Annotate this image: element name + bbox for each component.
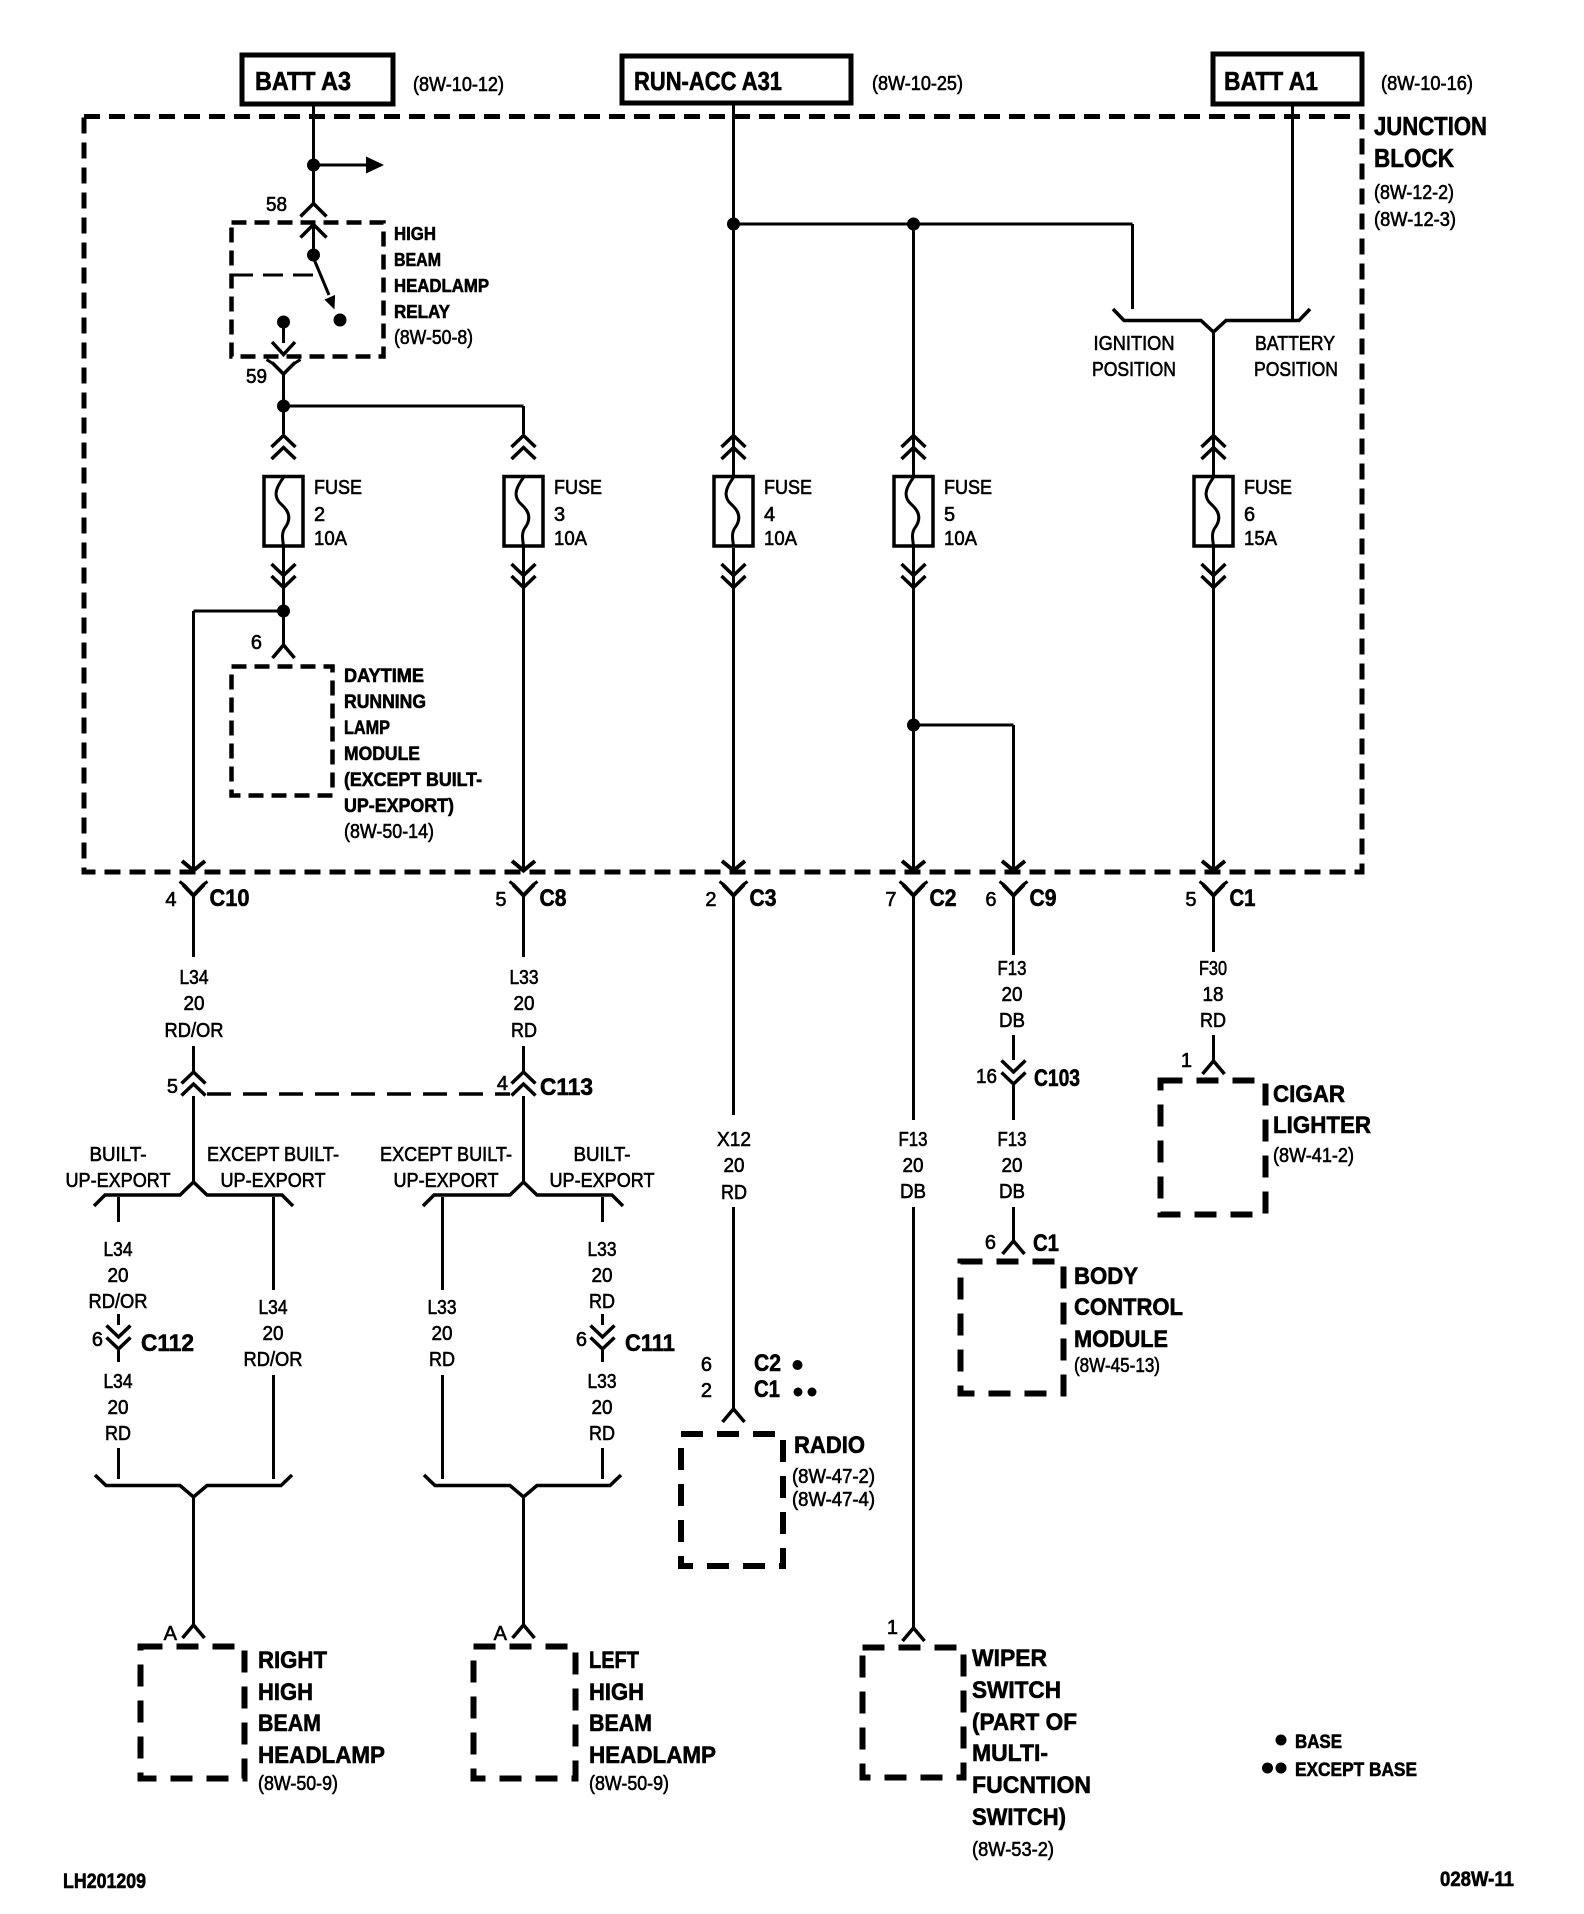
- wire fuse 3 to connector C8: [522, 546, 525, 868]
- svg-text:(8W-45-13): (8W-45-13): [1074, 1355, 1160, 1377]
- body control module label: [1074, 1263, 1183, 1377]
- svg-text:F30: F30: [1199, 958, 1227, 980]
- daytime running lamp module box: [232, 667, 333, 796]
- reference (8W-10-12): [413, 74, 504, 96]
- merge brace group 2: [424, 1475, 621, 1497]
- relay output contact dot: [277, 316, 290, 329]
- connector C1 pin 5: [1185, 861, 1255, 912]
- svg-text:L34: L34: [104, 1371, 133, 1393]
- svg-text:(PART OF: (PART OF: [972, 1709, 1077, 1736]
- wire label L33 20 RD lower: [588, 1371, 617, 1445]
- svg-text:BATT A1: BATT A1: [1224, 66, 1318, 96]
- svg-text:20: 20: [263, 1323, 284, 1345]
- wire brace to fuse 6: [1212, 332, 1215, 477]
- connector C8 pin 5: [495, 861, 566, 912]
- footer drawing number 028W-11: [1440, 1868, 1514, 1891]
- relay switch arm: [314, 258, 336, 310]
- svg-text:(8W-53-2): (8W-53-2): [972, 1839, 1054, 1861]
- wiper pin 1 label: [887, 1617, 898, 1639]
- junction dot branch to fuse 5: [907, 218, 920, 231]
- wire RUN-ACC A31 down to fuse 4: [732, 105, 735, 477]
- BCM pin 6: [1003, 1241, 1025, 1254]
- svg-text:WIPER: WIPER: [972, 1645, 1047, 1672]
- connector C113 pin 4 label: [497, 1073, 508, 1095]
- svg-text:(8W-50-14): (8W-50-14): [344, 821, 434, 843]
- legend base label: [1295, 1732, 1342, 1753]
- power feed RUN-ACC A31: [622, 56, 851, 103]
- wire except built stub: [272, 1197, 275, 1290]
- wire L34 lower: [192, 1046, 195, 1071]
- svg-text:16: 16: [976, 1066, 997, 1088]
- cigar lighter box: [1161, 1081, 1266, 1215]
- label built-up-export left: [66, 1144, 171, 1192]
- svg-text:L33: L33: [428, 1297, 457, 1319]
- svg-text:RD/OR: RD/OR: [244, 1349, 303, 1371]
- svg-text:RD: RD: [105, 1423, 131, 1445]
- svg-text:2: 2: [705, 889, 716, 911]
- connector C103 pin 16 label: [976, 1066, 997, 1088]
- wire into C103: [1012, 1035, 1015, 1060]
- connector C2 pin 7: [885, 861, 956, 912]
- svg-text:6: 6: [985, 1232, 996, 1254]
- svg-text:20: 20: [108, 1397, 129, 1419]
- svg-text:RD: RD: [429, 1349, 455, 1371]
- svg-text:C103: C103: [1034, 1065, 1080, 1092]
- fuse 4 output connector: [722, 564, 746, 588]
- junction dot node 59: [277, 400, 290, 413]
- relay label: [394, 224, 489, 349]
- split brace group 1: [94, 1182, 293, 1206]
- svg-text:HIGH: HIGH: [258, 1679, 313, 1706]
- svg-text:RIGHT: RIGHT: [258, 1647, 327, 1674]
- relay pin 58: [301, 204, 327, 217]
- wire X12 upper: [732, 906, 735, 1115]
- pin 59 label: [246, 366, 267, 388]
- svg-text:BODY: BODY: [1074, 1263, 1138, 1290]
- relay stationary contact dot: [334, 314, 347, 327]
- svg-text:RELAY: RELAY: [394, 302, 450, 322]
- cigar lighter pin 1: [1203, 1061, 1225, 1074]
- svg-text:L33: L33: [510, 967, 539, 989]
- svg-text:BASE: BASE: [1295, 1732, 1342, 1753]
- svg-text:C112: C112: [141, 1330, 194, 1357]
- power feed BATT A1: [1213, 54, 1362, 104]
- wire except built lower: [272, 1375, 275, 1479]
- connector C113 left half: [182, 1072, 206, 1096]
- wire pin 59 down: [282, 384, 285, 434]
- junction block label: [1374, 111, 1487, 231]
- wire except built lower 2: [441, 1375, 444, 1479]
- fuse 4 input connector: [722, 436, 746, 460]
- svg-text:SWITCH): SWITCH): [972, 1804, 1066, 1831]
- svg-text:LAMP: LAMP: [344, 718, 390, 739]
- wire to export split: [192, 1096, 195, 1182]
- DRL module pin 6: [273, 645, 295, 658]
- wire into BCM: [1012, 1207, 1015, 1241]
- svg-text:BEAM: BEAM: [258, 1710, 321, 1737]
- fuse 3 output connector: [512, 564, 536, 588]
- svg-text:BEAM: BEAM: [589, 1710, 652, 1737]
- svg-text:DB: DB: [900, 1181, 926, 1203]
- radio connector C2 label: [701, 1350, 781, 1377]
- wire RUN-ACC branch right: [734, 223, 1133, 226]
- wire L33 upper: [522, 907, 525, 957]
- svg-text:(8W-47-2): (8W-47-2): [792, 1466, 875, 1488]
- svg-text:(8W-12-3): (8W-12-3): [1374, 209, 1456, 231]
- reference (8W-10-16): [1381, 73, 1473, 95]
- wire below C111: [601, 1349, 604, 1362]
- svg-text:L34: L34: [259, 1297, 288, 1319]
- svg-text:EXCEPT BUILT-: EXCEPT BUILT-: [207, 1144, 339, 1166]
- svg-text:UP-EXPORT: UP-EXPORT: [394, 1170, 499, 1192]
- relay pin 59 connector: [267, 360, 301, 385]
- svg-text:20: 20: [592, 1265, 613, 1287]
- wire label F13 20 DB wiper: [899, 1129, 928, 1203]
- svg-text:20: 20: [1002, 984, 1023, 1006]
- svg-text:C111: C111: [625, 1330, 675, 1357]
- connector C112: [107, 1326, 195, 1358]
- base variant dot: [793, 1360, 803, 1370]
- svg-text:(8W-47-4): (8W-47-4): [792, 1489, 875, 1511]
- wire L34 upper: [192, 907, 195, 957]
- svg-text:HEADLAMP: HEADLAMP: [258, 1742, 385, 1769]
- svg-text:(EXCEPT BUILT-: (EXCEPT BUILT-: [344, 770, 482, 791]
- wire branch to fuse 3: [284, 406, 524, 434]
- fuse 2 input connector: [272, 436, 296, 460]
- svg-text:C1: C1: [1033, 1230, 1059, 1257]
- svg-text:C2: C2: [754, 1350, 781, 1377]
- BCM pin 6 label: [985, 1232, 996, 1254]
- body control module box: [961, 1262, 1064, 1394]
- svg-text:RD: RD: [721, 1182, 747, 1204]
- svg-text:F13: F13: [899, 1129, 928, 1151]
- svg-text:C8: C8: [540, 885, 567, 912]
- wire BATT A1 down: [1291, 106, 1294, 321]
- connector C10 pin 4: [165, 861, 249, 912]
- wire C9 upper: [1012, 906, 1015, 955]
- svg-text:RD/OR: RD/OR: [89, 1291, 148, 1313]
- svg-text:3: 3: [554, 504, 565, 526]
- right high beam headlamp box: [141, 1647, 245, 1779]
- left high beam headlamp box: [474, 1647, 576, 1779]
- svg-text:6: 6: [1244, 504, 1255, 526]
- svg-text:F13: F13: [998, 1129, 1027, 1151]
- wire fuse 6 to connector C1: [1212, 547, 1215, 868]
- reference (8W-10-25): [872, 73, 963, 95]
- radio label: [792, 1432, 875, 1511]
- connector C112 pin 6 label: [92, 1329, 103, 1351]
- svg-text:EXCEPT BASE: EXCEPT BASE: [1295, 1760, 1417, 1781]
- svg-text:20: 20: [592, 1397, 613, 1419]
- radio pin: [723, 1409, 745, 1422]
- svg-text:5: 5: [944, 504, 955, 526]
- svg-text:RD/OR: RD/OR: [165, 1020, 224, 1042]
- wire label L33 20 RD except: [428, 1297, 457, 1371]
- svg-text:FUSE: FUSE: [314, 477, 362, 499]
- wire F13 lower: [912, 1207, 915, 1628]
- svg-text:F13: F13: [998, 958, 1027, 980]
- svg-text:SWITCH: SWITCH: [972, 1677, 1061, 1704]
- merge brace group 1: [95, 1475, 292, 1497]
- svg-text:2: 2: [314, 504, 325, 526]
- svg-text:FUSE: FUSE: [764, 477, 812, 499]
- svg-text:20: 20: [108, 1265, 129, 1287]
- cigar lighter label: [1273, 1081, 1371, 1167]
- ignition-battery position brace: [1113, 309, 1310, 332]
- fuse 5 input connector: [902, 436, 926, 460]
- svg-text:A: A: [164, 1623, 178, 1645]
- svg-text:(8W-50-9): (8W-50-9): [589, 1773, 669, 1795]
- svg-text:X12: X12: [717, 1129, 751, 1151]
- fuse 6 input connector: [1202, 436, 1226, 460]
- wiper switch box: [863, 1648, 964, 1778]
- wire to merge brace 2: [601, 1448, 604, 1479]
- wire label L33 20 RD: [510, 967, 539, 1042]
- svg-text:FUCNTION: FUCNTION: [972, 1772, 1091, 1799]
- fuse 3 input connector: [512, 436, 536, 460]
- svg-text:C9: C9: [1030, 885, 1057, 912]
- svg-text:10A: 10A: [944, 528, 978, 550]
- svg-text:6: 6: [576, 1329, 587, 1351]
- footer sheet code LH201209: [63, 1870, 146, 1893]
- fuse 3: [504, 477, 602, 551]
- wire to left high beam headlamp: [522, 1497, 525, 1625]
- svg-text:7: 7: [885, 889, 896, 911]
- wire into cigar lighter: [1212, 1035, 1215, 1061]
- wire F13 upper: [912, 906, 915, 1120]
- wire branch down to fuse 5: [912, 224, 915, 477]
- svg-text:HEADLAMP: HEADLAMP: [394, 276, 489, 296]
- except base variant dots: [794, 1388, 817, 1397]
- svg-text:RUNNING: RUNNING: [344, 692, 426, 713]
- wire label L33 20 RD built: [588, 1239, 617, 1313]
- left headlamp pin A: [513, 1625, 535, 1638]
- svg-text:DAYTIME: DAYTIME: [344, 666, 424, 687]
- svg-text:5: 5: [1185, 889, 1196, 911]
- wire label L34 20 RD/OR built: [89, 1239, 148, 1313]
- legend except base label: [1295, 1760, 1417, 1781]
- left high beam headlamp label: [589, 1647, 716, 1795]
- pin A label left headlamp: [494, 1623, 508, 1645]
- relay internal output arrow: [272, 342, 295, 355]
- svg-text:5: 5: [167, 1076, 178, 1098]
- wire except built stub 2: [441, 1197, 444, 1290]
- radio connector C1 label: [701, 1376, 780, 1403]
- svg-text:EXCEPT BUILT-: EXCEPT BUILT-: [380, 1144, 512, 1166]
- wire to right high beam headlamp: [192, 1497, 195, 1625]
- wiper switch label: [972, 1645, 1091, 1861]
- right high beam headlamp label: [258, 1647, 385, 1795]
- dashed wire C113: [207, 1092, 510, 1096]
- label except built-up-export right: [380, 1144, 512, 1192]
- svg-text:(8W-50-8): (8W-50-8): [394, 327, 473, 349]
- svg-text:RD: RD: [589, 1423, 615, 1445]
- svg-text:4: 4: [497, 1073, 508, 1095]
- relay internal wire pin 58: [312, 225, 315, 251]
- svg-text:20: 20: [184, 993, 205, 1015]
- wire label L34 20 RD: [104, 1371, 133, 1445]
- label ignition position: [1092, 333, 1176, 381]
- svg-text:BATT A3: BATT A3: [255, 66, 351, 96]
- svg-text:HEADLAMP: HEADLAMP: [589, 1742, 716, 1769]
- svg-text:UP-EXPORT): UP-EXPORT): [344, 796, 454, 817]
- svg-text:RADIO: RADIO: [794, 1432, 865, 1459]
- wire label F30 18 RD: [1199, 958, 1227, 1032]
- svg-text:2: 2: [701, 1380, 712, 1402]
- svg-text:4: 4: [764, 504, 775, 526]
- svg-text:C2: C2: [930, 885, 957, 912]
- svg-text:20: 20: [724, 1155, 745, 1177]
- svg-text:HIGH: HIGH: [394, 224, 436, 244]
- connector C113 pin 5 label: [167, 1076, 178, 1098]
- BCM connector C1 label: [1033, 1230, 1059, 1257]
- connector C111 pin 6 label: [576, 1329, 587, 1351]
- svg-text:POSITION: POSITION: [1254, 359, 1338, 381]
- svg-text:20: 20: [1002, 1155, 1023, 1177]
- right headlamp pin A: [183, 1625, 205, 1638]
- svg-text:C10: C10: [210, 885, 250, 912]
- svg-text:UP-EXPORT: UP-EXPORT: [221, 1170, 326, 1192]
- relay high beam headlamp relay box: [232, 223, 384, 357]
- daytime running lamp module label: [344, 666, 482, 843]
- svg-text:RD: RD: [511, 1020, 537, 1042]
- svg-text:20: 20: [514, 993, 535, 1015]
- label built-up-export right: [550, 1144, 655, 1192]
- connector C111: [591, 1326, 676, 1358]
- connector C103: [1002, 1061, 1081, 1093]
- svg-text:MULTI-: MULTI-: [972, 1740, 1048, 1767]
- svg-text:CONTROL: CONTROL: [1074, 1294, 1183, 1321]
- pin A label right headlamp: [164, 1623, 178, 1645]
- wire into C112: [117, 1314, 120, 1325]
- svg-text:(8W-50-9): (8W-50-9): [258, 1773, 338, 1795]
- wire to export split right: [522, 1096, 525, 1182]
- wire branch arrow to other circuits: [314, 157, 385, 174]
- wire built stub 2: [601, 1197, 604, 1222]
- svg-text:BEAM: BEAM: [394, 250, 441, 270]
- svg-text:6: 6: [985, 889, 996, 911]
- wire X12 lower: [732, 1207, 735, 1409]
- wire label L34 20 RD/OR except: [244, 1297, 303, 1371]
- relay internal dashed divider: [233, 274, 319, 277]
- svg-text:1: 1: [887, 1617, 898, 1639]
- wire into C111: [601, 1314, 604, 1325]
- svg-text:L33: L33: [588, 1239, 617, 1261]
- wiper switch pin 1: [903, 1628, 925, 1641]
- svg-text:(8W-10-12): (8W-10-12): [413, 74, 504, 96]
- power feed BATT A3: [242, 55, 393, 104]
- svg-text:1: 1: [1181, 1050, 1192, 1072]
- svg-text:UP-EXPORT: UP-EXPORT: [66, 1170, 171, 1192]
- wire fuse 5 down: [912, 547, 915, 868]
- svg-text:6: 6: [701, 1354, 712, 1376]
- svg-text:(8W-10-25): (8W-10-25): [872, 73, 963, 95]
- fuse 6 output connector: [1202, 564, 1226, 588]
- svg-text:BATTERY: BATTERY: [1255, 333, 1335, 355]
- connector C3 pin 2: [705, 861, 776, 912]
- pin 6 label DRL: [251, 632, 262, 654]
- split brace group 2: [423, 1182, 623, 1206]
- svg-text:(8W-12-2): (8W-12-2): [1374, 182, 1454, 204]
- svg-text:BUILT-: BUILT-: [574, 1144, 631, 1166]
- svg-text:JUNCTION: JUNCTION: [1374, 111, 1487, 141]
- svg-text:59: 59: [246, 366, 267, 388]
- svg-text:58: 58: [266, 194, 287, 216]
- svg-text:(8W-10-16): (8W-10-16): [1381, 73, 1473, 95]
- junction dot on BATT A3 feed: [307, 159, 320, 172]
- fuse 2 output connector: [272, 564, 296, 588]
- wire label F13 20 DB upper: [998, 958, 1027, 1032]
- svg-text:RD: RD: [1200, 1010, 1226, 1032]
- svg-text:RD: RD: [589, 1291, 615, 1313]
- svg-text:L33: L33: [588, 1371, 617, 1393]
- svg-text:10A: 10A: [764, 528, 798, 550]
- svg-text:FUSE: FUSE: [944, 477, 992, 499]
- junction dot fuse 5 branch: [907, 719, 920, 732]
- wire F30 upper: [1212, 906, 1215, 952]
- svg-text:(8W-41-2): (8W-41-2): [1273, 1145, 1354, 1167]
- svg-text:20: 20: [903, 1155, 924, 1177]
- legend base dot: [1276, 1735, 1287, 1746]
- pin 58 label: [266, 194, 287, 216]
- svg-text:FUSE: FUSE: [1244, 477, 1292, 499]
- svg-text:10A: 10A: [554, 528, 588, 550]
- fuse 6: [1194, 477, 1292, 551]
- wire below C112: [117, 1349, 120, 1362]
- svg-text:L34: L34: [180, 967, 209, 989]
- svg-text:MODULE: MODULE: [344, 744, 420, 765]
- wire built-up-export stub: [117, 1197, 120, 1222]
- connector C9 pin 6: [985, 861, 1056, 912]
- svg-text:IGNITION: IGNITION: [1094, 333, 1175, 355]
- svg-text:DB: DB: [999, 1181, 1025, 1203]
- svg-text:POSITION: POSITION: [1092, 359, 1176, 381]
- svg-text:C113: C113: [540, 1074, 593, 1101]
- svg-text:5: 5: [495, 889, 506, 911]
- wire branch to connector C10: [194, 611, 284, 868]
- svg-text:4: 4: [165, 889, 176, 911]
- fuse 5: [894, 477, 992, 551]
- relay internal wire to pin 59: [282, 325, 285, 343]
- svg-text:C1: C1: [1230, 885, 1256, 912]
- fuse 5 output connector: [902, 564, 926, 588]
- svg-text:BUILT-: BUILT-: [90, 1144, 147, 1166]
- svg-text:BLOCK: BLOCK: [1374, 143, 1454, 173]
- svg-text:15A: 15A: [1244, 528, 1278, 550]
- svg-text:028W-11: 028W-11: [1440, 1868, 1514, 1891]
- wire fuse 4 to connector C3: [732, 548, 735, 868]
- svg-text:A: A: [494, 1623, 508, 1645]
- svg-text:RUN-ACC A31: RUN-ACC A31: [634, 66, 782, 96]
- wire label L34 20 RD/OR: [165, 967, 224, 1042]
- relay common contact dot: [307, 249, 320, 262]
- svg-text:CIGAR: CIGAR: [1273, 1081, 1345, 1108]
- svg-text:6: 6: [92, 1329, 103, 1351]
- wire branch to connector C9: [914, 725, 1014, 868]
- svg-text:6: 6: [251, 632, 262, 654]
- svg-text:UP-EXPORT: UP-EXPORT: [550, 1170, 655, 1192]
- svg-text:MODULE: MODULE: [1074, 1326, 1168, 1353]
- wire fuse 2 to node: [282, 546, 285, 645]
- fuse 4: [714, 477, 812, 551]
- label battery position: [1254, 333, 1338, 381]
- junction dot fuse 2 output: [277, 605, 290, 618]
- svg-text:DB: DB: [999, 1010, 1025, 1032]
- wire BATT A3 to relay pin 58: [312, 106, 315, 204]
- svg-text:HIGH: HIGH: [589, 1679, 644, 1706]
- legend except base dots: [1262, 1763, 1287, 1774]
- wire label X12 20 RD: [717, 1129, 751, 1204]
